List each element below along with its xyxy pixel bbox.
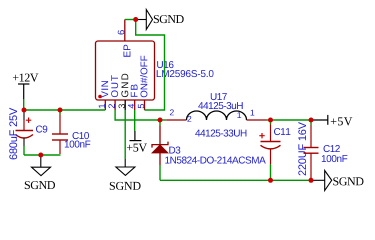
ground SGND middle stem [124,159,126,167]
capacitor C10 top wire stub [59,110,61,115]
inductor U17 left pin [166,119,186,121]
wire pin5 to EP net right side [136,20,165,111]
capacitor C9 top lead red [23,120,25,131]
capacitor C9 top pin black [23,110,25,120]
pin 4 number [128,104,134,109]
value 100nF C10 [65,141,91,148]
op-amp U16 regulator body [96,41,155,100]
capacitor C10 top plate [52,133,68,135]
inductor U17 right wire stub [267,119,271,121]
capacitor C12 top plate [304,147,319,149]
wire pin4 to +5V port [134,110,136,131]
pin GND name [121,74,128,97]
capacitor C12 bottom pin [310,153,312,180]
power port SGND top label [154,15,184,23]
power port +5V right lead [311,119,328,121]
power port SGND bottom lead [311,179,325,181]
node +12V/C9 junction [22,108,27,113]
pin number 1 inner [237,112,241,118]
power port +5V right label [331,117,353,125]
diode D3 triangle [152,145,168,153]
label D3 [169,147,180,154]
wire pin2 to switch node [115,110,160,120]
pin VIN name [101,81,108,98]
wire bottom-left rail [24,154,61,156]
power port SGND top flag [146,10,152,30]
capacitor C11 top plate [261,141,281,143]
pin 3 number [119,104,125,108]
node VIN marker dot inside U16 [98,95,102,99]
inductor U17 coils [187,111,247,120]
capacitor C12 bottom plate [304,152,319,154]
power port +12V label [13,74,39,82]
power port +12V bar [18,83,29,85]
capacitor C9 bottom pin black [23,138,25,146]
wire D3 to bottom rail [159,165,161,180]
ground SGND left triangle [32,167,51,175]
power port +5V right bar [327,115,329,125]
pin number 2 inner [187,116,191,122]
power port SGND top lead [136,19,147,21]
node C11 bottom junction [268,178,273,183]
wire top-left rail [24,109,106,111]
diode D3 schottky bar [152,142,168,148]
wire bottom-right rail [160,179,311,181]
diode D3 cathode pin [159,126,161,145]
node C12 bottom junction [309,178,314,183]
capacitor C11 top pin [270,125,272,142]
capacitor C11 bottom pin [270,149,272,165]
power port SGND bottom flag [325,171,332,191]
capacitor C10 top pin [59,115,61,135]
ground SGND left stem [40,155,42,167]
label C10 [73,132,90,139]
pin 5 number [138,104,144,108]
diode D3 anode pin [159,153,161,165]
label C9 [36,126,47,133]
label U17 [211,93,227,100]
node EP junction [133,17,138,22]
pin 1 stub [104,100,106,110]
pin OUT name [111,75,118,97]
node C11 top junction [268,118,273,123]
node switch junction [158,118,163,123]
capacitor C11 top wire stub [270,120,272,125]
power port +5V mid stem [134,131,136,141]
wire switch node to +5V rail [271,119,312,121]
wire EP to junction [125,19,136,21]
label U16 [157,61,173,68]
power port +12V stem [23,84,25,99]
pin 6 stub EP [124,20,126,42]
pin 3 stub [124,100,126,110]
pin number 1 outer [251,110,255,116]
node left ground junction [38,153,43,158]
wire C11 to bottom rail [270,164,272,180]
ground SGND middle triangle [116,167,135,175]
pin 2 stub [114,100,116,110]
power port +5V mid bar [130,140,142,142]
value 44125-33UH [195,130,246,137]
value 680uF 25V [9,108,17,160]
pin EP name [123,45,130,57]
ground SGND middle label [110,182,141,190]
pin 2 number [108,104,114,108]
inductor U17 left wire stub [160,119,166,121]
capacitor C10 bottom plate [52,139,68,141]
capacitor C9 bottom plate arc [16,135,34,139]
value 44125-3uH [198,102,243,109]
inductor U17 right pin [247,119,267,121]
pin 5 stub [144,100,146,110]
pin FB name [131,85,138,97]
wire C9 to bottom rail [23,146,25,155]
label C12 [324,145,340,152]
pin 1 number [99,104,105,108]
pin ON#/OFF name [140,56,147,98]
ground SGND left label [25,181,55,189]
capacitor C11 bottom plate arc [261,145,281,149]
node C10 junction [58,108,63,113]
capacitor C12 top wire stub [310,120,312,125]
pin 4 stub [134,100,136,110]
pin 6 number [118,30,125,34]
capacitor C10 bottom pin [59,140,61,154]
diode D3 cathode wire stub [159,120,161,126]
pin number 2 outer [170,109,174,115]
node C12 top junction [309,118,314,123]
capacitor C9 plus sign [26,118,31,123]
value 100nF C12 [322,155,348,162]
value 220UF 16V [298,122,306,175]
capacitor C9 top plate [16,130,34,132]
power port SGND bottom label [333,177,363,185]
capacitor C12 top pin [310,125,312,148]
value 1N5824-DO-214ACSMA [165,157,265,164]
power port +5V mid label [127,144,147,152]
wire +12V to rail [23,99,25,110]
wire pin3 to ground [124,110,126,159]
capacitor C11 plus sign [259,133,264,138]
value LM2596S-5.0 [157,70,214,77]
label C11 [274,128,290,135]
